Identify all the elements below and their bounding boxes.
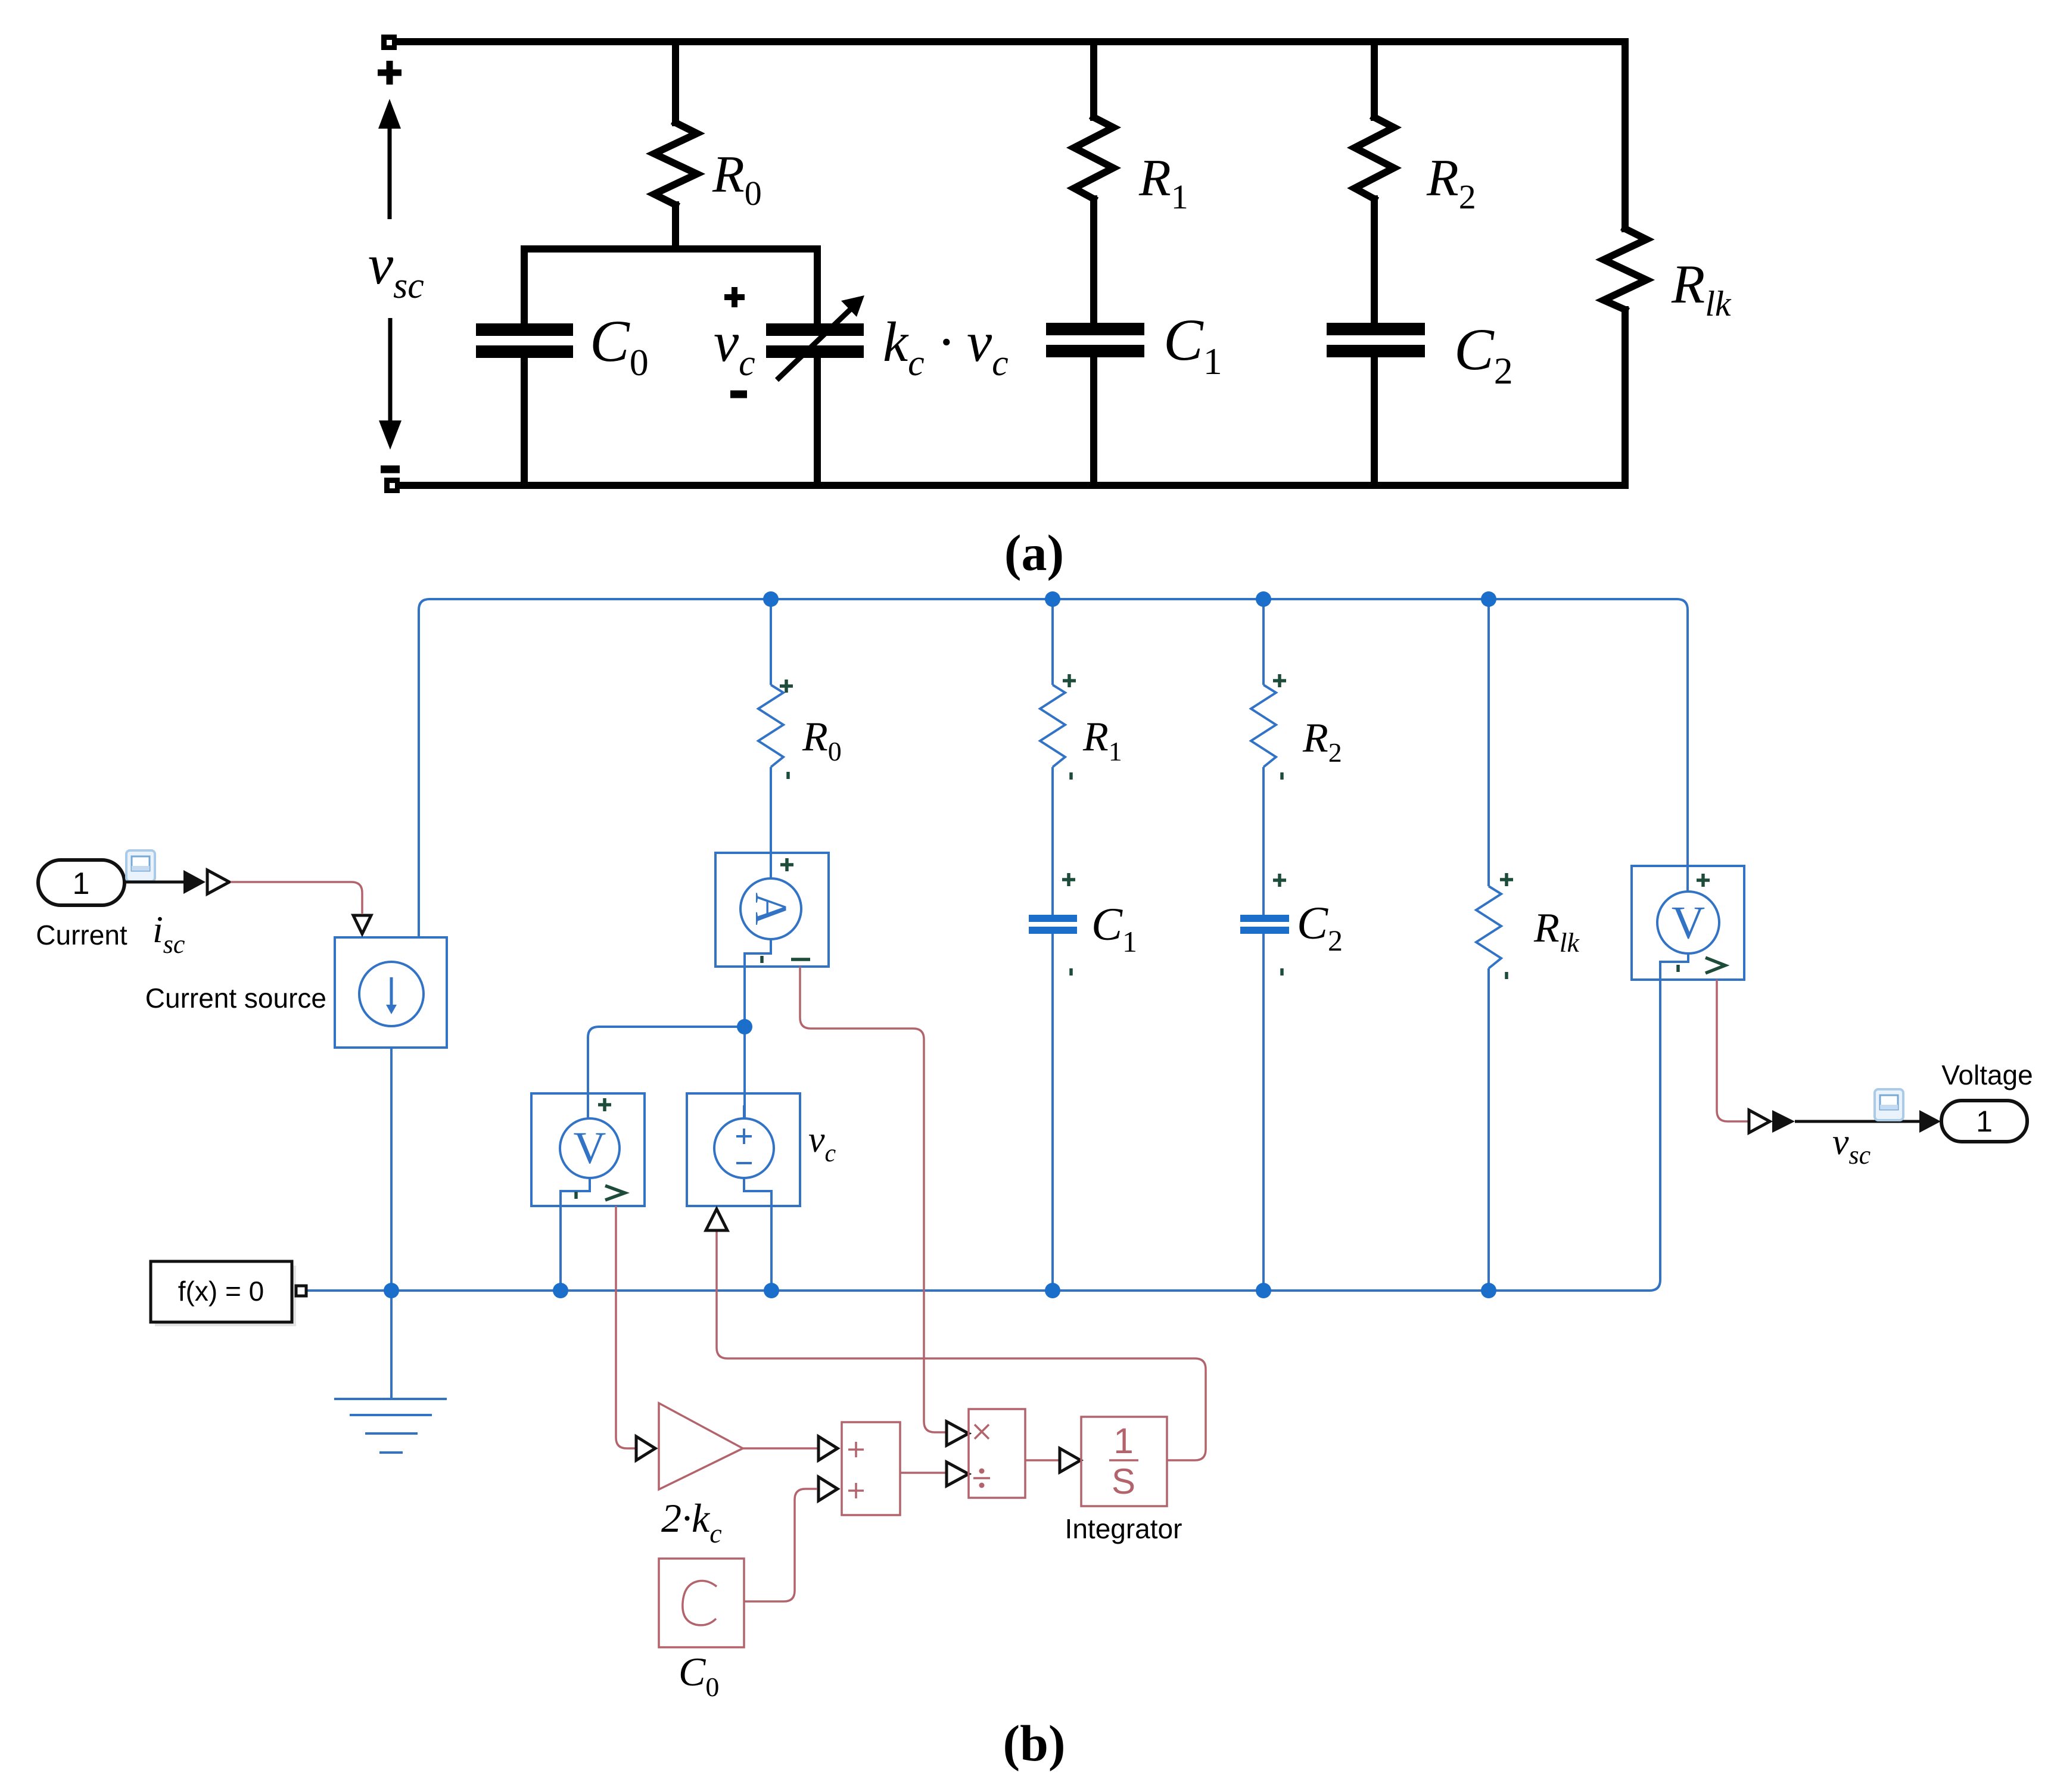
wire right edge lower (a) <box>1621 310 1629 485</box>
port label + voltmeter V2 <box>1697 874 1710 887</box>
svg-text:1: 1 <box>73 867 90 901</box>
wire bottom rail (b) <box>306 1289 1650 1292</box>
constant block C0 <box>659 1559 744 1647</box>
current source arrow <box>386 977 397 1014</box>
product input triangle x <box>947 1422 969 1445</box>
port label + R1 <box>1063 674 1076 687</box>
controlled voltage source vc block <box>687 1093 800 1206</box>
port tick - C2 <box>1280 968 1284 976</box>
capacitor C1 lead bottom <box>1090 357 1097 485</box>
resistor R1 lead to C1 <box>1090 199 1097 323</box>
sum input triangle 2 <box>818 1477 838 1501</box>
signal arrowhead solid (output) <box>1772 1110 1795 1133</box>
port label > voltmeter V2 <box>1705 958 1725 973</box>
signal wire C0 to sum (red) <box>744 1489 817 1601</box>
label - (vc polarity) <box>730 391 747 398</box>
voltmeter V2 circle <box>1657 892 1719 953</box>
wire node line (C0 // kc.vc top) <box>524 245 817 253</box>
signal wire isc (red) <box>231 882 362 914</box>
resistor Rlk (b) zigzag <box>1476 886 1501 968</box>
signal wire gain to sum (red) <box>743 1447 817 1450</box>
wire Rlk to rail <box>1487 968 1490 1291</box>
input port Current (1) <box>38 860 125 905</box>
resistor R1 lead top <box>1090 42 1097 117</box>
constant C0 letter <box>683 1581 717 1625</box>
resistor R2 zigzag <box>1355 117 1394 199</box>
resistor R0 (b) zigzag <box>758 685 783 767</box>
wire C1 to rail <box>1051 934 1054 1291</box>
product divide mark <box>973 1469 990 1488</box>
svg-text:1: 1 <box>1113 1421 1133 1461</box>
node dot rail-ground <box>384 1283 399 1298</box>
resistor R0 lead bottom <box>672 205 679 249</box>
capacitor C0 lead bottom <box>521 358 528 485</box>
port label > voltmeter V1 <box>605 1186 625 1200</box>
signal port triangle (vc source input) <box>706 1209 727 1230</box>
sum plus mark 1 <box>848 1442 864 1457</box>
signal wire voltmeter V2 out (red) <box>1717 980 1748 1121</box>
wire R1 to C1 <box>1051 767 1054 915</box>
wire R0 branch upper <box>770 599 772 685</box>
svg-text:A: A <box>746 893 796 925</box>
capacitor C0 plates <box>476 323 573 358</box>
scope badge (output) <box>1875 1089 1903 1120</box>
svg-text:Voltage: Voltage <box>1941 1059 2033 1090</box>
port label + voltmeter V1 <box>598 1098 611 1111</box>
solver block f(x)=0 <box>151 1261 296 1326</box>
label + (vsc polarity top) <box>378 61 402 85</box>
label + (vc polarity) <box>724 287 745 307</box>
ammeter internal exit wire <box>745 939 771 1027</box>
wire R2 to C2 <box>1262 767 1265 915</box>
wire bottom rail (a) <box>399 482 1625 489</box>
resistor R2 (b) zigzag <box>1251 685 1276 767</box>
port label minus ammeter <box>791 958 810 961</box>
source vc plus mark <box>736 1129 752 1144</box>
label - (vsc polarity bottom) <box>381 466 400 473</box>
product times mark <box>975 1425 989 1439</box>
svg-text:f(x) = 0: f(x) = 0 <box>178 1276 264 1307</box>
sum plus mark 2 <box>848 1483 864 1498</box>
capacitor C2 plates <box>1327 323 1425 357</box>
wire Rlk branch upper <box>1487 599 1490 886</box>
wire top rail (a) <box>397 38 1625 45</box>
signal arrowhead open (output) <box>1749 1110 1770 1133</box>
current source block <box>335 937 447 1048</box>
wire C2 to rail <box>1262 934 1265 1291</box>
node dot rail-Rlk bottom <box>1481 1283 1496 1298</box>
wire R2 branch upper <box>1262 599 1265 685</box>
resistor R0 zigzag <box>654 123 697 205</box>
node dot ammeter-V-vc <box>737 1019 752 1034</box>
port tick - C1 <box>1069 968 1073 976</box>
voltmeter V1 circle <box>560 1118 620 1178</box>
node dot rail-R0 <box>763 591 779 607</box>
wire R1 branch upper <box>1051 599 1054 685</box>
terminal + (top-left) <box>381 35 397 50</box>
current source circle <box>359 962 424 1026</box>
port tick - voltmeter V1 <box>574 1192 578 1199</box>
capacitor C2 lead bottom <box>1371 357 1378 485</box>
port label + Rlk <box>1500 873 1513 886</box>
gain input triangle <box>636 1436 655 1460</box>
variable capacitor kc.vc lead top <box>814 249 821 323</box>
resistor R1 zigzag <box>1074 117 1113 199</box>
wire R0 branch to ammeter <box>770 767 772 880</box>
signal arrowhead at port Voltage <box>1919 1110 1941 1133</box>
port tick - R0 <box>786 772 790 779</box>
source vc circle <box>714 1118 774 1178</box>
ammeter circle <box>740 878 801 939</box>
signal wire from port 1 <box>125 881 185 884</box>
port tick - ammeter <box>760 956 764 963</box>
source vc internal wires <box>744 1105 771 1291</box>
product input triangle div <box>947 1462 969 1486</box>
svg-text:kc · vc: kc · vc <box>883 310 1009 384</box>
wire node to source vc <box>743 1027 746 1118</box>
signal arrowhead solid (input) <box>183 870 206 894</box>
svg-text:(b): (b) <box>1003 1715 1065 1772</box>
capacitor C1 (b) plates <box>1029 915 1077 934</box>
source vc minus mark <box>736 1162 752 1164</box>
port label + R0 <box>780 680 793 693</box>
port label + C2 <box>1273 874 1286 887</box>
signal wire ammeter minus (red) <box>800 967 946 1432</box>
wire node to voltmeter V1 <box>588 1027 745 1118</box>
node dot rail-Rlk <box>1481 591 1496 607</box>
variable capacitor arrow <box>777 295 864 380</box>
sum block <box>842 1422 900 1515</box>
resistor R1 (b) zigzag <box>1040 685 1065 767</box>
svg-text:1: 1 <box>1976 1105 1993 1138</box>
signal port triangle (current source input) <box>353 915 371 934</box>
resistor R2 lead top <box>1371 42 1378 117</box>
output port Voltage (1) <box>1941 1101 2027 1142</box>
node dot rail-R1 <box>1045 591 1060 607</box>
svg-text:Current source: Current source <box>145 983 326 1014</box>
signal wire feedback integrator to vc (red) <box>717 1232 1206 1460</box>
node dot rail-C2 <box>1256 1283 1271 1298</box>
integrator input triangle <box>1060 1448 1081 1472</box>
vsc arrow up <box>378 99 401 219</box>
capacitor C2 (b) plates <box>1240 915 1289 934</box>
wire top rail (b) <box>419 599 1688 937</box>
resistor Rlk zigzag <box>1604 229 1647 310</box>
signal wire to port Voltage <box>1795 1120 1921 1123</box>
scope badge (input) <box>126 850 155 881</box>
svg-text:Current: Current <box>36 920 127 950</box>
svg-text:V: V <box>1672 897 1705 949</box>
variable capacitor kc.vc lead bottom <box>814 358 821 485</box>
resistor R2 lead to C2 <box>1371 199 1378 323</box>
voltmeter V1 internal exit wire <box>561 1178 590 1291</box>
wire ground lead <box>390 1291 393 1399</box>
signal wire voltmeter V1 out (red) <box>616 1206 635 1448</box>
voltmeter V1 block <box>531 1093 645 1206</box>
ammeter U_A block <box>715 853 829 967</box>
terminal - (bottom-left) <box>384 478 400 493</box>
voltmeter V2 internal exit wire <box>1649 953 1688 1291</box>
svg-text:S: S <box>1112 1461 1135 1501</box>
voltmeter V2 block (output) <box>1632 866 1744 980</box>
svg-text:(a): (a) <box>1004 524 1064 581</box>
port tick - R1 <box>1069 772 1073 780</box>
port label + R2 <box>1273 674 1286 687</box>
node dot rail-vc <box>764 1283 779 1298</box>
solver port square <box>296 1286 306 1296</box>
port label + ammeter <box>780 858 793 871</box>
gain block 2kc <box>659 1403 743 1489</box>
vsc arrow down <box>379 318 402 450</box>
product block <box>969 1409 1025 1498</box>
node dot rail-V1 <box>553 1283 568 1298</box>
svg-text:V: V <box>574 1123 606 1173</box>
signal wire sum to product (red) <box>900 1472 945 1474</box>
svg-text:Integrator: Integrator <box>1065 1513 1182 1544</box>
ground <box>334 1399 447 1453</box>
wire current source to rail <box>390 1048 393 1291</box>
capacitor C0 lead top <box>521 249 528 323</box>
integrator block 1/S <box>1081 1417 1167 1506</box>
wire right edge upper (a) <box>1621 42 1629 229</box>
capacitor C1 plates <box>1046 323 1144 357</box>
node dot rail-R2 <box>1256 591 1271 607</box>
signal wire product to integrator (red) <box>1025 1459 1059 1461</box>
port tick - R2 <box>1280 772 1284 780</box>
port label + C1 <box>1062 873 1075 886</box>
resistor R0 lead top <box>672 42 679 123</box>
sum input triangle 1 <box>818 1436 838 1460</box>
node dot rail-C1 <box>1045 1283 1060 1298</box>
port tick - Rlk <box>1505 972 1508 979</box>
port tick - voltmeter V2 <box>1676 965 1680 972</box>
variable capacitor kc.vc plates <box>766 323 864 358</box>
signal arrowhead open (input) <box>207 870 229 894</box>
